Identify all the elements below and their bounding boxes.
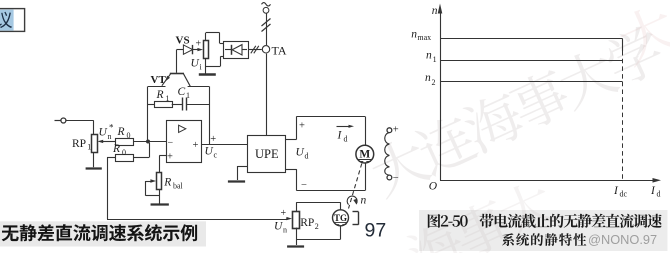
graph x-axis Id <box>440 180 654 182</box>
current Id arrow <box>337 126 351 128</box>
RP1 wiper arrow <box>101 141 116 143</box>
svg-text:TG: TG <box>334 213 347 223</box>
svg-text:2: 2 <box>315 222 319 231</box>
tach loop bottom <box>296 239 340 241</box>
svg-text:0: 0 <box>127 131 131 140</box>
svg-text:1: 1 <box>186 91 190 100</box>
RC branch wire <box>148 104 154 106</box>
svg-text:U: U <box>191 58 200 70</box>
speed n arc arrow <box>347 196 357 205</box>
right caption line1 <box>428 214 468 228</box>
wire VS to Ui resistor with arrow <box>193 49 198 51</box>
left caption text <box>2 224 197 241</box>
ground below RP1 <box>86 167 102 169</box>
svg-text:R: R <box>117 126 125 138</box>
wire TA to UPE <box>266 54 268 136</box>
tach loop left <box>296 202 298 211</box>
svg-text:R: R <box>156 89 164 101</box>
svg-text:d: d <box>305 152 309 161</box>
svg-text:VT: VT <box>151 74 167 86</box>
svg-text:VS: VS <box>176 35 190 47</box>
icon box top-left <box>0 9 25 32</box>
svg-text:+: + <box>393 125 399 136</box>
svg-text:U: U <box>274 221 283 233</box>
armature loop top-left <box>296 116 298 139</box>
Rbal wiper tie <box>145 181 147 196</box>
wire R0 to node <box>134 141 166 143</box>
op-amp + input wire <box>159 155 166 157</box>
svg-text:n: n <box>361 195 367 207</box>
svg-text:+: + <box>193 140 199 151</box>
armature loop right <box>365 116 367 145</box>
VT base lead <box>176 50 178 73</box>
svg-text:1: 1 <box>87 143 91 152</box>
svg-text:−: − <box>301 180 307 191</box>
svg-text:+: + <box>196 39 202 50</box>
svg-text:n: n <box>432 5 438 17</box>
svg-text:n: n <box>108 132 112 141</box>
wire rectifier bottom to ground <box>220 56 223 58</box>
wire Ui top to rectifier box <box>205 33 207 41</box>
svg-text:−: − <box>168 138 174 149</box>
svg-text:RP: RP <box>300 217 314 229</box>
svg-text:R: R <box>163 177 171 189</box>
svg-text:n: n <box>411 28 417 40</box>
svg-text:max: max <box>417 33 431 42</box>
svg-text:U: U <box>205 146 214 158</box>
svg-text:+: + <box>167 152 173 163</box>
line n1 <box>441 60 623 62</box>
svg-text:1: 1 <box>166 94 170 103</box>
op-amp triangle <box>179 125 186 132</box>
svg-text:d: d <box>344 135 348 144</box>
capacitor C1 <box>182 98 184 111</box>
node junction dot <box>146 140 150 144</box>
svg-text:n: n <box>426 50 432 62</box>
Idc dashed line <box>622 51 624 180</box>
field winding terminal - <box>387 175 392 180</box>
wire terminal to TA with break <box>266 13 268 45</box>
svg-text:n: n <box>283 226 287 235</box>
feedback vertical right <box>209 87 211 145</box>
svg-text:bal: bal <box>173 182 184 191</box>
right caption band <box>419 210 668 251</box>
svg-text:n: n <box>425 72 431 84</box>
svg-text:97: 97 <box>365 220 387 242</box>
svg-text:1: 1 <box>433 55 437 64</box>
right caption line2 <box>502 233 586 246</box>
potentiometer RP1 <box>92 135 98 153</box>
diode VS <box>177 49 184 51</box>
armature loop bottom-left <box>296 169 298 191</box>
UPE block <box>248 136 286 173</box>
svg-text:+: + <box>210 134 216 145</box>
svg-text:M: M <box>359 149 370 161</box>
svg-text:R: R <box>112 143 120 155</box>
svg-text:C: C <box>178 86 186 98</box>
resistor R0 feedback <box>116 155 134 162</box>
svg-text:2: 2 <box>432 78 436 87</box>
transistor VT base bar <box>170 73 184 75</box>
svg-text:+: + <box>281 208 287 219</box>
chassis ground bar <box>199 73 216 75</box>
wire Ui bottom to ground <box>205 58 207 73</box>
ground at tach loop <box>287 245 304 247</box>
svg-text:*: * <box>109 123 114 133</box>
wire R0fb right up to node <box>134 157 149 159</box>
svg-text:+: + <box>299 121 305 132</box>
resistor R1 <box>155 102 173 108</box>
brush bracket <box>358 212 360 225</box>
feedback top wire left <box>148 86 166 88</box>
RP2 wiper arrow from feedback line <box>286 217 292 220</box>
svg-text:U: U <box>99 127 108 139</box>
Rbal wiper arrow <box>146 181 152 183</box>
svg-text:RP: RP <box>72 138 86 150</box>
potentiometer Rbal <box>157 173 162 190</box>
wire R0fb left down to feedback line <box>107 157 116 159</box>
Rbal to ground <box>159 189 161 203</box>
VT emitter with arrow <box>162 74 171 86</box>
break marks supply <box>262 19 271 27</box>
motor shaft dashed <box>349 164 362 209</box>
break marks <box>251 46 256 54</box>
svg-text:dc: dc <box>620 190 628 199</box>
feedback top wire right <box>188 86 210 88</box>
svg-text:O: O <box>429 181 438 193</box>
field winding terminal + <box>387 128 392 133</box>
graph y-axis n <box>440 13 442 180</box>
svg-text:d: d <box>657 190 661 199</box>
op-amp output wire Uc <box>201 144 248 146</box>
ground below UPE <box>228 180 245 182</box>
svg-text:U: U <box>296 147 305 159</box>
potentiometer RP2 <box>293 212 300 229</box>
current transformer TA <box>262 46 269 53</box>
wire box to TA <box>248 49 262 51</box>
resistor Ui <box>204 41 209 59</box>
feedback wire bottom <box>107 219 287 221</box>
input terminal <box>55 120 61 122</box>
svg-text:@NONO.97: @NONO.97 <box>588 232 657 247</box>
line n2 <box>441 81 623 83</box>
rectifier box with diode <box>224 42 249 59</box>
AC supply terminal <box>262 3 271 6</box>
tach loop top wire <box>296 202 340 204</box>
resistor R0 (given) <box>116 139 134 146</box>
watermark 大连海事大学 <box>365 132 434 200</box>
feedback vertical left <box>147 87 149 142</box>
ground below Rbal <box>151 203 169 205</box>
svg-text:−: − <box>393 173 399 184</box>
svg-text:UPE: UPE <box>255 147 279 161</box>
field winding coil <box>385 133 390 176</box>
VT collector <box>184 74 191 86</box>
tach TG circle <box>340 202 342 210</box>
svg-text:TA: TA <box>272 44 287 58</box>
wire RP1 to ground <box>93 152 95 167</box>
UPE right stubs <box>286 139 297 141</box>
wire input to RP1 <box>66 120 94 122</box>
op-amp U1 box <box>167 121 202 163</box>
motor M <box>356 145 374 163</box>
svg-text:c: c <box>214 151 218 160</box>
UPE left lower stub to ground <box>237 166 247 168</box>
svg-text:0: 0 <box>122 148 126 157</box>
line nmax <box>441 38 623 40</box>
left caption band <box>0 221 206 246</box>
cutoff drop solid <box>622 39 624 52</box>
